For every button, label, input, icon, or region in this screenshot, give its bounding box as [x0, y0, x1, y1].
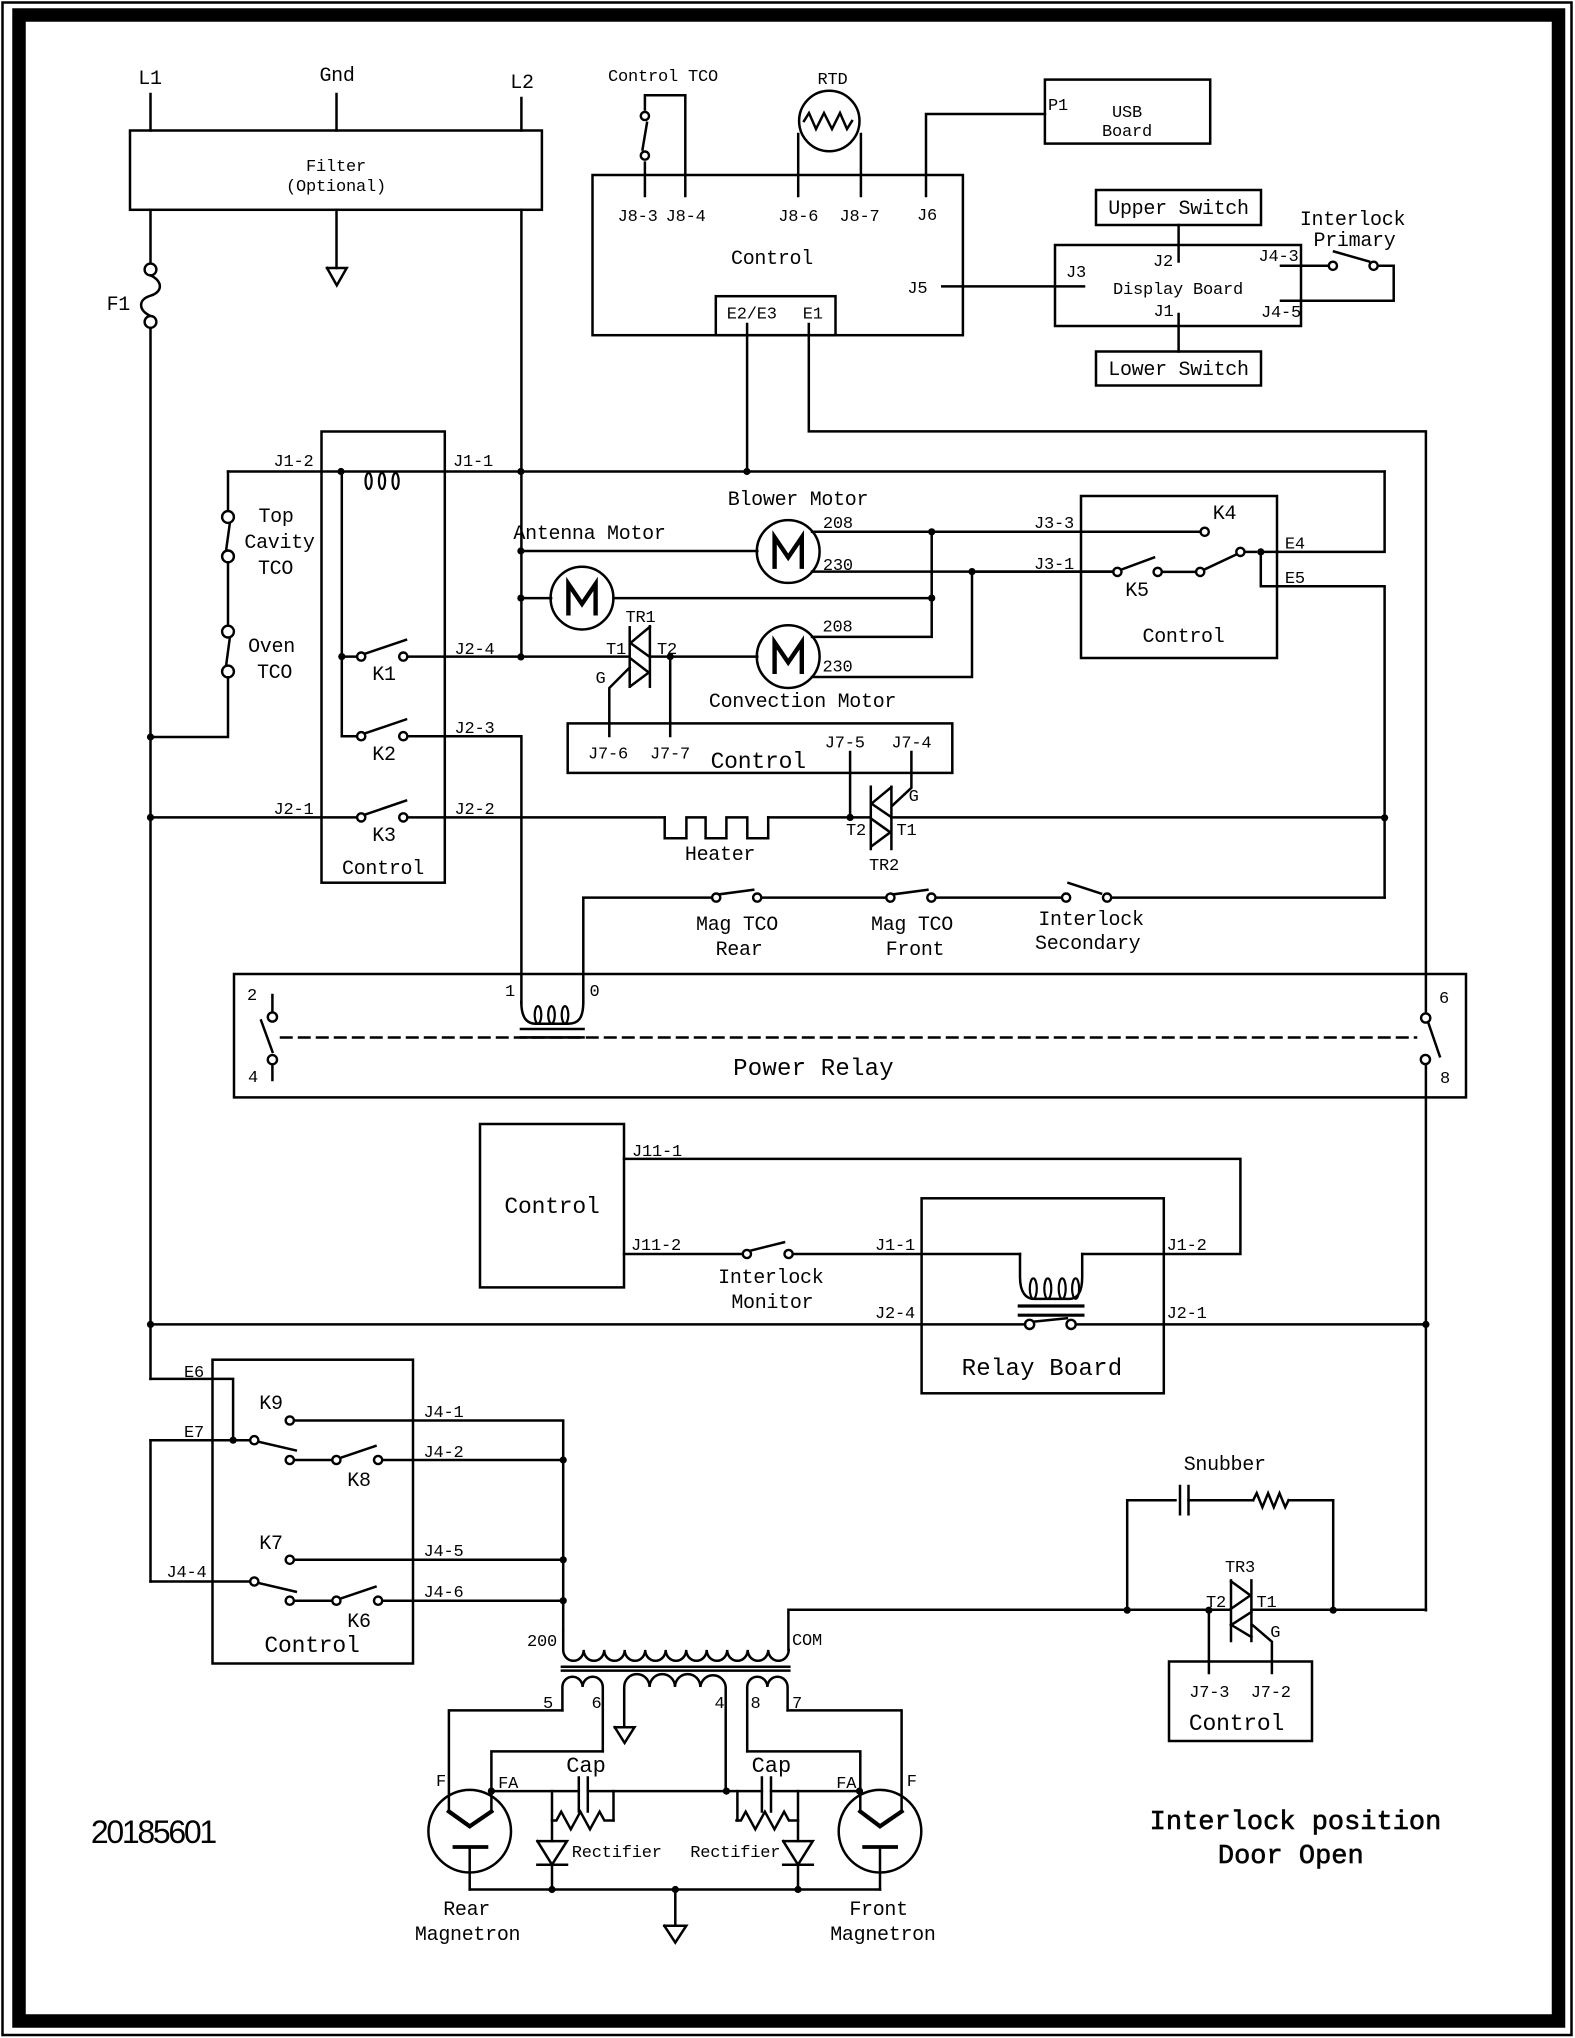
wire antenna out	[613, 597, 931, 600]
junction snubber right	[1330, 1607, 1337, 1614]
lower switch box	[1096, 352, 1261, 386]
capacitor left	[578, 1778, 581, 1812]
wire TR3 out	[1251, 1608, 1426, 1611]
wire J2-1 bus	[1076, 1323, 1426, 1326]
svg-text:F1: F1	[107, 294, 131, 317]
svg-text:J8-6: J8-6	[778, 208, 818, 227]
svg-text:208: 208	[822, 619, 852, 638]
svg-text:1: 1	[505, 983, 515, 1002]
junction rect left cathode	[548, 1886, 555, 1893]
wire anode mid-left	[588, 1790, 727, 1793]
svg-text:USB: USB	[1112, 104, 1142, 123]
wire COM to TR3	[1127, 1608, 1230, 1611]
ground symbol transformer	[615, 1727, 635, 1743]
svg-text:J3-1: J3-1	[1034, 556, 1074, 575]
junction J2-4 L2	[517, 653, 524, 660]
wire E2/E3 pin	[746, 324, 749, 472]
wire K4 out	[1245, 551, 1256, 554]
interlock monitor switch	[743, 1250, 751, 1258]
control K6K9 box	[213, 1360, 414, 1664]
svg-text:Front: Front	[886, 939, 945, 962]
top cavity TCO switch	[222, 511, 234, 523]
wire anode mid-right	[726, 1790, 762, 1793]
RTD wires	[797, 134, 800, 196]
wire relay pin8 drop	[1425, 1064, 1428, 1610]
junction 208 bus	[928, 528, 935, 535]
wire J3-3	[932, 531, 1200, 534]
junction TCO L1	[147, 733, 154, 740]
svg-text:Rectifier: Rectifier	[572, 1844, 662, 1863]
svg-text:TCO: TCO	[257, 662, 292, 685]
svg-text:Lower Switch: Lower Switch	[1108, 359, 1248, 382]
svg-text:8: 8	[750, 1695, 760, 1714]
svg-text:E5: E5	[1285, 570, 1305, 589]
svg-text:J7-3: J7-3	[1189, 1684, 1229, 1703]
snubber return	[1289, 1500, 1334, 1610]
wire TR2 out	[891, 816, 1384, 819]
wire COM	[788, 1610, 1127, 1650]
svg-text:J2-4: J2-4	[875, 1305, 915, 1324]
svg-text:J8-7: J8-7	[839, 208, 879, 227]
svg-text:J4-5: J4-5	[1261, 304, 1301, 323]
svg-text:230: 230	[822, 659, 852, 678]
relay board coil	[1020, 1254, 1082, 1299]
wire J7-7 pin	[669, 657, 672, 736]
wire cathode ground	[674, 1890, 677, 1926]
svg-text:Cap: Cap	[566, 1754, 606, 1779]
junction 230 bus	[968, 568, 975, 575]
svg-text:E2/E3: E2/E3	[727, 306, 777, 325]
svg-text:T1: T1	[897, 822, 917, 841]
svg-text:T2: T2	[846, 822, 866, 841]
svg-text:TR2: TR2	[869, 857, 899, 876]
USB board box	[1045, 80, 1210, 144]
svg-text:Control TCO: Control TCO	[608, 68, 718, 87]
svg-text:Display Board: Display Board	[1113, 281, 1243, 300]
svg-text:(Optional): (Optional)	[286, 178, 386, 197]
svg-text:Antenna Motor: Antenna Motor	[513, 523, 665, 546]
svg-text:Control: Control	[731, 248, 813, 271]
relay K1K2K3 box	[322, 432, 445, 883]
wire J4-5	[295, 1559, 564, 1562]
front magnetron	[839, 1790, 922, 1873]
wire interlock sec to E5	[1112, 896, 1385, 899]
wire blower feed	[521, 550, 757, 553]
resistor bleed right	[736, 1791, 739, 1820]
snubber branch	[1127, 1500, 1175, 1610]
svg-text:Secondary: Secondary	[1035, 933, 1141, 956]
wire K5 to K4	[1163, 571, 1196, 574]
control board J7 box	[568, 723, 953, 773]
triac TR3 gate	[1252, 1624, 1272, 1673]
mag TCO rear switch	[712, 894, 720, 902]
svg-text:P1: P1	[1048, 97, 1068, 116]
svg-text:J7-2: J7-2	[1251, 1684, 1291, 1703]
svg-text:J2: J2	[1153, 253, 1173, 272]
svg-text:J4-5: J4-5	[423, 1543, 463, 1562]
upper switch box	[1096, 190, 1261, 225]
junction J4-5	[560, 1556, 567, 1563]
rectifier right	[783, 1841, 813, 1865]
wire L1 to filter	[149, 94, 152, 131]
wire anode left	[491, 1790, 578, 1793]
svg-text:K2: K2	[372, 744, 395, 767]
wire anode right	[771, 1790, 860, 1793]
svg-text:8: 8	[1440, 1070, 1450, 1089]
transformer secondary filament mid	[624, 1674, 726, 1791]
svg-text:Convection Motor: Convection Motor	[709, 691, 896, 714]
svg-text:G: G	[909, 788, 919, 807]
svg-text:Control: Control	[342, 858, 424, 881]
svg-text:Control: Control	[711, 749, 806, 775]
oven TCO switch	[222, 626, 234, 638]
triac TR3	[1230, 1580, 1233, 1641]
wire Gnd to filter	[335, 94, 338, 131]
svg-text:TCO: TCO	[258, 558, 293, 581]
control TCO switch	[644, 163, 647, 196]
relay board core	[1019, 1304, 1083, 1307]
control K4K5 box	[1081, 496, 1277, 658]
wire E4 riser	[1261, 472, 1385, 552]
wire J2-1 heater feed	[151, 816, 358, 819]
svg-text:E4: E4	[1285, 536, 1305, 555]
wire TCO drop	[227, 472, 230, 511]
rear magnetron	[428, 1790, 511, 1873]
junction J2-1 pin8 line	[1422, 1321, 1429, 1328]
wire L2 to filter	[520, 98, 523, 131]
control J73 box	[1169, 1662, 1312, 1742]
svg-text:Upper Switch: Upper Switch	[1108, 198, 1248, 221]
wire mag line left	[583, 898, 711, 1003]
wire heater line	[407, 816, 664, 819]
wire J1 lower switch	[1177, 314, 1180, 352]
wire relay board J1-2 stub	[1082, 1253, 1164, 1256]
control board U1 box	[593, 175, 963, 335]
svg-text:K6: K6	[347, 1611, 370, 1634]
svg-text:K7: K7	[259, 1533, 282, 1556]
junction TR3 T2	[1205, 1607, 1212, 1614]
svg-text:K1: K1	[372, 664, 396, 687]
svg-text:K8: K8	[347, 1470, 370, 1493]
svg-text:0: 0	[589, 983, 599, 1002]
svg-text:Power Relay: Power Relay	[733, 1056, 894, 1083]
svg-text:L1: L1	[138, 68, 162, 91]
junction antenna bus	[928, 595, 935, 602]
junction K1 pivot	[338, 653, 345, 660]
svg-text:4: 4	[248, 1069, 258, 1088]
svg-text:208: 208	[823, 515, 853, 534]
triac TR2	[870, 787, 873, 849]
triac TR1	[628, 627, 631, 686]
svg-text:K9: K9	[259, 1393, 282, 1416]
filter box	[130, 131, 542, 210]
svg-text:J4-2: J4-2	[423, 1444, 463, 1463]
wire J4-3 stub	[1281, 265, 1328, 268]
switch K2	[357, 732, 365, 740]
antenna motor	[551, 567, 614, 630]
svg-text:200: 200	[527, 1633, 557, 1652]
svg-text:TR3: TR3	[1225, 1559, 1255, 1578]
wire J2-4 to TR1	[521, 655, 629, 658]
junction J2-4 L1	[147, 1321, 154, 1328]
svg-text:FA: FA	[836, 1775, 857, 1794]
junction E4 E5	[1257, 548, 1264, 555]
junction rear FA	[488, 1788, 495, 1795]
svg-text:J6: J6	[917, 207, 937, 226]
svg-text:Rectifier: Rectifier	[690, 1844, 780, 1863]
svg-text:J8-4: J8-4	[666, 208, 706, 227]
wire J2 upper switch	[1177, 225, 1180, 262]
wire E5 run	[1261, 552, 1385, 898]
svg-text:Rear: Rear	[443, 1899, 490, 1922]
svg-text:Relay Board: Relay Board	[962, 1356, 1123, 1383]
svg-text:Blower Motor: Blower Motor	[728, 489, 868, 512]
switch K8	[286, 1456, 294, 1464]
wire K pivot rail	[341, 472, 344, 737]
junction rect right cathode	[794, 1886, 801, 1893]
svg-text:G: G	[595, 670, 605, 689]
wire J1-1 relay board	[793, 1253, 1020, 1256]
convection motor	[757, 625, 820, 688]
switch K1	[357, 653, 365, 661]
svg-text:Gnd: Gnd	[319, 65, 354, 88]
E2/E3 E1 sub box	[716, 296, 836, 335]
power relay box	[234, 974, 1466, 1097]
wire heater to TR2	[768, 816, 870, 819]
wire J4-6	[383, 1599, 563, 1602]
svg-text:J5: J5	[907, 280, 927, 299]
svg-text:COM: COM	[792, 1632, 822, 1651]
wire J7-4 gate	[893, 752, 912, 805]
power relay contact 2-4	[271, 995, 274, 1012]
svg-text:J4-1: J4-1	[423, 1404, 463, 1423]
wire TCO mid	[227, 562, 230, 625]
ground symbol filter	[327, 268, 347, 285]
transformer primary	[563, 1630, 789, 1660]
junction J4-6	[560, 1597, 567, 1604]
wire E7	[151, 1439, 251, 1442]
svg-text:Heater: Heater	[685, 844, 755, 867]
display board box	[1055, 245, 1301, 326]
wire 230 riser	[812, 572, 972, 677]
switch K4 contact	[1201, 528, 1209, 536]
heater element	[665, 817, 769, 838]
transformer secondary 8-7	[747, 1677, 787, 1752]
svg-text:Magnetron: Magnetron	[415, 1924, 520, 1947]
junction blower feed	[517, 547, 524, 554]
transformer secondary 5-6	[562, 1677, 602, 1752]
svg-text:2: 2	[247, 987, 257, 1006]
svg-text:J3-3: J3-3	[1034, 515, 1074, 534]
wire J4-4 stub	[151, 1580, 251, 1583]
svg-text:20185601: 20185601	[91, 1814, 216, 1850]
svg-text:J3: J3	[1066, 264, 1086, 283]
svg-text:Mag TCO: Mag TCO	[696, 914, 778, 937]
snubber resistor wire	[1189, 1499, 1254, 1502]
svg-text:4: 4	[714, 1695, 724, 1714]
snubber resistor	[1253, 1493, 1288, 1507]
svg-text:Interlock position: Interlock position	[1150, 1808, 1442, 1838]
wire interlock primary to J4-5	[1281, 266, 1394, 301]
svg-text:RTD: RTD	[817, 71, 847, 90]
svg-text:G: G	[1270, 1624, 1280, 1643]
svg-text:J2-4: J2-4	[454, 641, 494, 660]
junction TR2 E5 line	[1381, 814, 1388, 821]
svg-text:J7-7: J7-7	[650, 746, 690, 765]
svg-text:F: F	[907, 1773, 917, 1792]
svg-text:J11-2: J11-2	[631, 1237, 681, 1256]
wire blower 208	[812, 531, 932, 534]
snubber capacitor	[1179, 1486, 1182, 1514]
junction pin4 anode	[723, 1788, 730, 1795]
svg-text:FA: FA	[498, 1775, 519, 1794]
junction J7-7	[667, 653, 674, 660]
svg-text:E1: E1	[803, 306, 823, 325]
svg-text:J2-1: J2-1	[1167, 1305, 1207, 1324]
svg-text:Top: Top	[258, 506, 293, 529]
wire E1 to relay pin6	[809, 324, 1426, 1012]
svg-text:Control: Control	[1143, 626, 1225, 649]
svg-text:J7-6: J7-6	[588, 746, 628, 765]
svg-text:F: F	[436, 1773, 446, 1792]
switch K5	[1113, 568, 1121, 576]
transformer core	[562, 1666, 789, 1669]
wire TR1 out	[650, 655, 757, 658]
junction ground cathode	[672, 1886, 679, 1893]
wire L1 main vertical	[149, 328, 152, 1379]
svg-text:K5: K5	[1125, 580, 1148, 603]
svg-text:J1-2: J1-2	[1167, 1237, 1207, 1256]
triac TR1 gate	[609, 668, 629, 737]
relay board box	[922, 1198, 1164, 1393]
svg-text:Rear: Rear	[716, 939, 763, 962]
RTD thermistor	[799, 91, 859, 151]
svg-text:J1: J1	[1153, 303, 1173, 322]
wire pin7 to front F	[788, 1710, 902, 1811]
wire J4-2	[383, 1459, 563, 1462]
interlock primary switch	[1329, 262, 1337, 270]
switch K3	[357, 813, 365, 821]
relay board contact	[1025, 1320, 1034, 1329]
svg-text:Primary: Primary	[1314, 230, 1396, 253]
blower motor	[757, 520, 820, 583]
junction TR2 T2	[847, 814, 854, 821]
svg-text:L2: L2	[510, 72, 533, 95]
wire J7-3 pin	[1208, 1610, 1211, 1673]
switch K7 pivot	[250, 1577, 258, 1585]
wire J7-5 pin	[849, 752, 852, 817]
svg-text:6: 6	[591, 1695, 601, 1714]
wire mag mid	[762, 896, 886, 899]
switch K9 contact	[286, 1416, 294, 1424]
wire J2-3 to coil pin1	[407, 736, 521, 1003]
svg-text:Oven: Oven	[248, 636, 295, 659]
junction antenna feed	[517, 595, 524, 602]
wire J11-1	[624, 1159, 1240, 1254]
junction J4-2	[560, 1456, 567, 1463]
switch K6	[286, 1597, 294, 1605]
wire blower 230	[812, 570, 1113, 573]
junction J2-1 L1	[147, 814, 154, 821]
wire mag right	[936, 896, 1061, 899]
control J11 box	[480, 1124, 624, 1287]
wire J3-1	[972, 570, 1113, 573]
svg-text:J11-1: J11-1	[632, 1143, 682, 1162]
wire 208 riser	[812, 532, 932, 637]
wire J11-2	[624, 1253, 742, 1256]
junction E2/E3 bus	[743, 468, 750, 475]
junction L2 bus	[517, 468, 524, 475]
svg-text:Cavity: Cavity	[244, 532, 315, 555]
capacitor right	[761, 1778, 764, 1812]
ground symbol cathode	[664, 1926, 686, 1943]
svg-text:Snubber: Snubber	[1184, 1454, 1266, 1477]
mag TCO front switch	[886, 894, 894, 902]
svg-text:J4-3: J4-3	[1258, 248, 1298, 267]
svg-text:J1-1: J1-1	[875, 1237, 915, 1256]
wire TCO to L1	[151, 677, 229, 737]
junction E6 E7	[230, 1437, 237, 1444]
resistor bleed left	[612, 1791, 615, 1820]
switch K7 contact	[286, 1556, 294, 1564]
relay coil J1 (K box)	[366, 473, 372, 489]
wire J2-4 bus	[151, 1323, 1026, 1326]
svg-text:Control: Control	[504, 1194, 599, 1220]
power relay linkage dashed	[281, 1036, 1416, 1039]
svg-text:Mag TCO: Mag TCO	[871, 914, 953, 937]
svg-text:Monitor: Monitor	[731, 1292, 813, 1315]
svg-text:Interlock: Interlock	[718, 1267, 823, 1290]
wire L2 drop	[520, 210, 523, 657]
wire J2-4	[407, 655, 521, 658]
svg-text:Front: Front	[849, 1899, 908, 1922]
svg-text:J7-5: J7-5	[825, 735, 865, 754]
svg-text:J1-2: J1-2	[273, 453, 313, 472]
svg-text:230: 230	[823, 557, 853, 576]
wire E7 to J4-4	[149, 1440, 152, 1581]
wire K2 stub	[342, 735, 357, 738]
svg-text:J4-6: J4-6	[423, 1584, 463, 1603]
junction coil bus	[337, 468, 344, 475]
wire antenna feed	[521, 597, 551, 600]
svg-text:J2-3: J2-3	[454, 720, 494, 739]
wire pin6 to rear FA	[491, 1751, 602, 1811]
svg-text:Interlock: Interlock	[1038, 909, 1143, 932]
svg-text:J8-3: J8-3	[618, 208, 658, 227]
svg-text:Magnetron: Magnetron	[830, 1924, 935, 1947]
wire filter ground	[335, 210, 338, 268]
svg-text:K3: K3	[372, 825, 395, 848]
wire J1-1 bus	[228, 470, 1385, 473]
wire E6	[151, 1379, 234, 1440]
svg-text:K4: K4	[1213, 503, 1236, 526]
svg-text:Filter: Filter	[306, 158, 366, 177]
switch K9 pivot	[250, 1436, 258, 1444]
svg-text:Control: Control	[264, 1633, 359, 1659]
switch K4	[1196, 568, 1204, 576]
junction snubber left	[1124, 1607, 1131, 1614]
svg-text:6: 6	[1439, 990, 1449, 1009]
svg-text:Board: Board	[1102, 123, 1152, 142]
svg-text:Door Open: Door Open	[1218, 1842, 1364, 1872]
wire pin8 to front FA	[747, 1751, 860, 1811]
wire J6 to USB	[926, 114, 1045, 196]
rectifier left	[537, 1841, 567, 1865]
wire J5 to display	[942, 285, 1084, 288]
power relay contact 6-8	[1421, 1013, 1430, 1022]
interlock secondary switch	[1062, 894, 1070, 902]
junction front FA	[856, 1788, 863, 1795]
